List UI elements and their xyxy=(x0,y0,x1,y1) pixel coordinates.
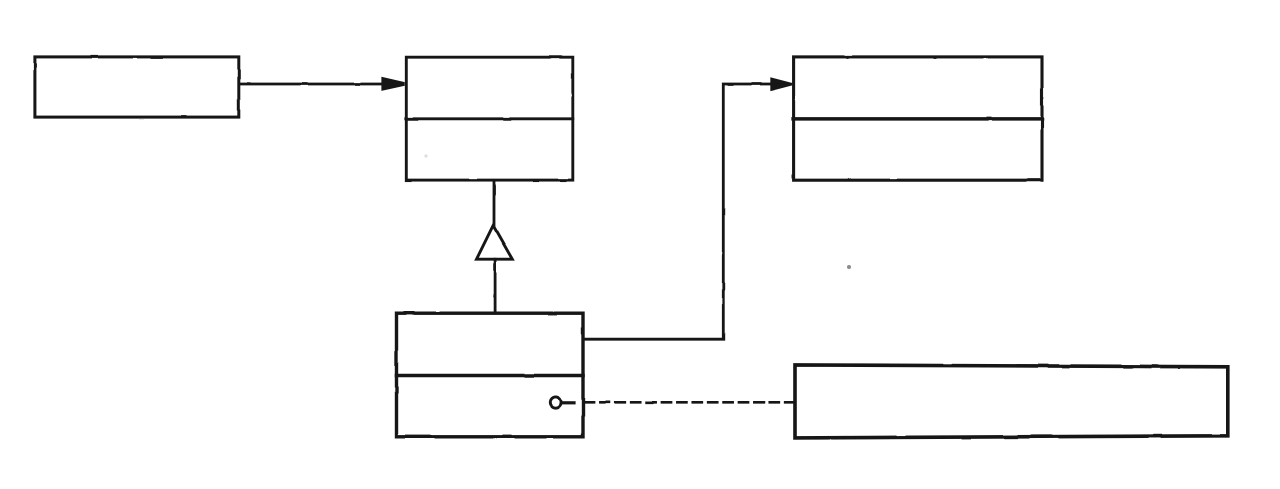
wire: elbow association from B4 right edge up to B3 xyxy=(583,84,781,339)
wire: stub from circle to B4 right edge xyxy=(563,401,575,404)
arrowhead into B3 xyxy=(770,77,792,91)
class box B1 (top-left, single compartment) xyxy=(35,57,239,117)
class box B2 (top-middle, two compartments) xyxy=(406,57,573,180)
inheritance triangle (open, pointing up) xyxy=(477,226,513,260)
wire: stem from triangle base down to B4 top xyxy=(494,259,497,313)
wire: association arrow shaft B1 to B2 xyxy=(240,83,384,86)
faint scan speck inside B2 lower compartment xyxy=(424,154,427,157)
arrowhead into B2 xyxy=(381,77,404,91)
interface circle (lollipop) inside B4 xyxy=(550,397,561,408)
wire: dashed link from B4 to B5 xyxy=(585,401,794,404)
wire: inheritance stem from B2 bottom to triangle apex xyxy=(493,181,496,227)
class box B4 (bottom-middle, two compartments) xyxy=(397,313,584,437)
class box B3 (top-right, two compartments) xyxy=(793,57,1042,180)
scan speck near B3 lower area xyxy=(847,265,851,269)
class box B5 (bottom-right, single compartment, slight scan skew) xyxy=(795,365,1228,438)
